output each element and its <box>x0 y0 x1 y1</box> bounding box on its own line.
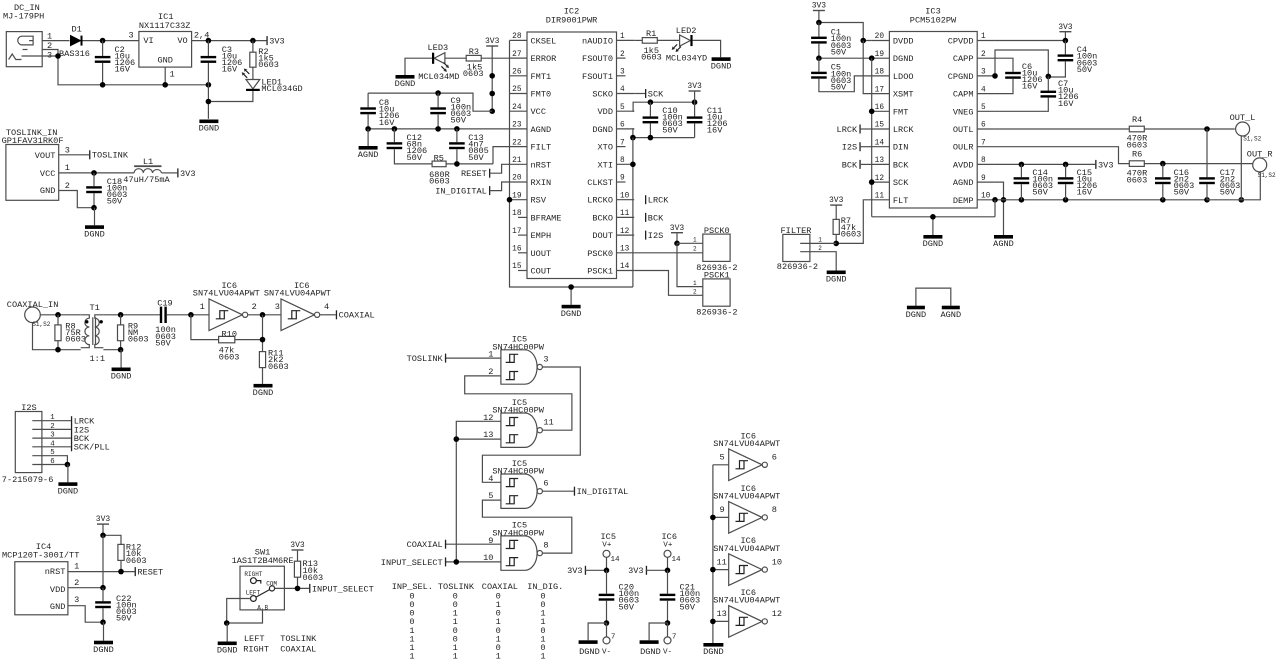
ground DGND (toslink) <box>94 208 96 226</box>
svg-text:2: 2 <box>818 245 822 252</box>
IC2 pin 12 DOUT <box>617 234 635 236</box>
svg-text:CAPP: CAPP <box>953 54 974 64</box>
IC2 pin 8 XTI <box>617 163 635 165</box>
supply 3V3 (IC2 left) <box>486 45 498 46</box>
svg-text:PSCK0: PSCK0 <box>704 226 730 236</box>
net BCK from BCKO pin 11 <box>645 213 646 222</box>
svg-text:SCK: SCK <box>648 89 664 99</box>
svg-text:R1: R1 <box>646 29 656 39</box>
svg-text:16: 16 <box>875 104 885 112</box>
svg-text:OULR: OULR <box>953 143 974 153</box>
svg-text:BAS316: BAS316 <box>59 49 90 59</box>
svg-text:2: 2 <box>50 423 54 431</box>
spare inverter input ground column <box>712 465 714 643</box>
capacitor C11 10u <box>694 102 696 116</box>
svg-text:GND: GND <box>157 55 172 65</box>
IC2 pin 20 RXIN <box>510 181 528 183</box>
wire LED3 anode to R3 <box>445 57 466 59</box>
svg-text:3: 3 <box>129 31 134 41</box>
IC3 pin 10 DEMP <box>977 199 995 201</box>
svg-text:R5: R5 <box>434 154 444 164</box>
svg-text:DGND: DGND <box>253 388 274 398</box>
svg-text:1AS1T2B4M6RE: 1AS1T2B4M6RE <box>232 556 294 566</box>
svg-text:0603: 0603 <box>841 230 862 240</box>
svg-text:VDD: VDD <box>598 107 613 117</box>
svg-text:13: 13 <box>620 246 630 254</box>
svg-text:VI: VI <box>143 36 153 46</box>
svg-text:16V: 16V <box>115 65 131 75</box>
connector OUT_R <box>1253 158 1267 172</box>
wire R4 to OUT_L <box>1144 128 1235 130</box>
LED LED2 MCL034YD <box>657 39 679 41</box>
IC2 pin 16 UOUT <box>518 252 527 254</box>
wire FILTER pin 1 <box>800 242 836 244</box>
ground DGND (spare inverters) <box>703 643 723 647</box>
wire LED1 cathode to ground <box>208 91 253 102</box>
junction FMT1 <box>489 73 495 79</box>
svg-text:4: 4 <box>324 302 329 312</box>
junction FMT0 <box>489 91 495 97</box>
junction node VIN <box>100 38 106 44</box>
IC5 V- pin 7 <box>606 623 608 637</box>
capacitor C9 <box>435 90 441 96</box>
supply 3V3 (SW1) <box>292 549 304 550</box>
svg-text:V-: V- <box>602 648 611 656</box>
svg-text:MCL034GD: MCL034GD <box>261 84 302 94</box>
svg-text:BCK: BCK <box>893 160 909 170</box>
svg-text:LRCKO: LRCKO <box>587 196 613 206</box>
svg-text:8: 8 <box>772 505 777 515</box>
svg-text:R3: R3 <box>469 47 479 57</box>
svg-text:2: 2 <box>981 51 986 59</box>
ground DGND (SW1) <box>226 623 228 642</box>
resistor R12 10k <box>118 544 124 560</box>
svg-text:DGND: DGND <box>906 310 927 320</box>
svg-text:DGND: DGND <box>217 646 238 656</box>
svg-text:R4: R4 <box>1132 115 1142 125</box>
svg-text:DGND: DGND <box>111 372 132 382</box>
capacitor C19 <box>160 307 162 323</box>
svg-text:3V3: 3V3 <box>485 37 500 46</box>
ground DGND (R11) <box>254 384 273 388</box>
svg-text:50V: 50V <box>451 116 467 126</box>
svg-text:14: 14 <box>611 556 621 564</box>
diode D1 BAS316 <box>71 36 81 46</box>
bottom rail out to C16/C17 <box>1207 172 1260 200</box>
svg-text:DGND: DGND <box>592 125 613 135</box>
wire PSCK0 pin 2 from PSCK0 pin 13 <box>634 252 712 254</box>
wire coax shield <box>33 323 81 350</box>
supply 3V3 tick (AVDD) <box>1095 160 1096 169</box>
capacitor C7 10u <box>1047 76 1049 90</box>
svg-text:SN74LVU04APWT: SN74LVU04APWT <box>713 492 780 502</box>
svg-text:10: 10 <box>981 193 991 201</box>
supply 3V3 (IC2 VDD) <box>689 90 701 91</box>
connector PSCK1 826936-2 <box>703 279 730 306</box>
ground DGND (tie) <box>907 306 925 310</box>
supply 3V3 (IC3 DVDD) <box>813 10 825 11</box>
capacitor C22 <box>102 588 104 602</box>
svg-text:16: 16 <box>512 246 522 254</box>
wire 3V3 to PSCK0 pin 1 <box>677 242 713 244</box>
supply 3V3 (R7) <box>830 204 842 205</box>
svg-text:INPUT_SELECT: INPUT_SELECT <box>312 584 374 594</box>
svg-text:50V: 50V <box>1174 188 1190 198</box>
svg-text:AGND: AGND <box>940 310 961 320</box>
IC3 pin 11 FLT <box>872 199 890 201</box>
svg-text:7: 7 <box>981 139 986 147</box>
wire T1 secondary bottom <box>103 349 120 351</box>
svg-text:BCK: BCK <box>648 213 664 223</box>
IC2 pin 6 DGND <box>617 128 635 130</box>
supply 3V3 tick (IC6) <box>646 566 647 575</box>
svg-text:9: 9 <box>620 175 625 183</box>
svg-text:27: 27 <box>512 51 522 59</box>
wire IC1 VO to 3V3 <box>192 40 267 42</box>
svg-text:0603: 0603 <box>268 362 289 372</box>
svg-text:3: 3 <box>543 355 548 365</box>
capacitor C12 68n <box>393 129 395 142</box>
svg-text:3V3: 3V3 <box>829 196 844 205</box>
svg-text:0603: 0603 <box>429 177 450 187</box>
IC3 pin 3 CPGND <box>977 75 995 77</box>
wire DEMP pin 10 rail <box>995 199 1207 201</box>
svg-text:50V: 50V <box>407 153 423 163</box>
wire FLT/DEMP ground link <box>872 216 995 218</box>
svg-text:VO: VO <box>177 36 187 46</box>
wire D1 to IC1 VI <box>83 40 139 42</box>
svg-text:RESET: RESET <box>137 568 163 578</box>
wire OULR pin 7 to R6 <box>995 147 1129 164</box>
net RESET (IC4) <box>135 567 136 576</box>
svg-text:14: 14 <box>875 139 885 147</box>
svg-text:DGND: DGND <box>84 230 105 240</box>
wire gate B out to gate A pin 2 <box>465 376 572 430</box>
svg-text:50V: 50V <box>1032 188 1048 198</box>
svg-text:826936-2: 826936-2 <box>777 262 818 272</box>
svg-text:50V: 50V <box>155 338 171 348</box>
IC3 pin 18 LDOO <box>872 75 890 77</box>
wire 3V3 to R12 <box>103 535 121 544</box>
resistor R3 1k5 <box>466 55 481 61</box>
svg-text:DGND: DGND <box>93 645 114 655</box>
svg-text:3: 3 <box>981 69 986 77</box>
svg-text:12: 12 <box>620 228 630 236</box>
connector DC_IN MJ-179PH <box>6 32 42 67</box>
svg-text:14: 14 <box>672 556 682 564</box>
wire AGND rail to pin 23 <box>368 128 509 130</box>
I2S pin 3 wire / net BCK <box>32 437 71 439</box>
svg-text:GND: GND <box>50 602 65 612</box>
svg-text:2: 2 <box>252 302 257 312</box>
svg-text:5: 5 <box>620 104 625 112</box>
wire GND pin2 <box>59 191 94 208</box>
svg-text:DGND: DGND <box>395 79 416 89</box>
svg-text:EMPH: EMPH <box>531 231 552 241</box>
svg-text:3V3: 3V3 <box>1058 23 1073 32</box>
svg-text:25: 25 <box>512 86 522 94</box>
svg-text:R10: R10 <box>222 329 237 339</box>
svg-text:3V3: 3V3 <box>628 566 643 576</box>
svg-text:S1,S2: S1,S2 <box>1243 136 1261 143</box>
svg-text:IC6: IC6 <box>662 532 677 542</box>
wire gate C pin 5 from gate D out <box>482 500 571 553</box>
wire 3V3 to DVDD pin 20 <box>819 23 872 41</box>
svg-text:8: 8 <box>981 157 986 165</box>
IC2 pin 17 EMPH <box>518 234 527 236</box>
svg-text:50V: 50V <box>662 126 678 136</box>
svg-text:nRST: nRST <box>45 567 66 577</box>
svg-text:0603: 0603 <box>126 556 147 566</box>
svg-text:1: 1 <box>200 302 205 312</box>
svg-text:0603: 0603 <box>128 335 149 345</box>
IC2 pin 10 LRCKO <box>617 199 635 201</box>
wire FLT pin 11 to filter select node <box>836 200 872 244</box>
svg-text:17: 17 <box>512 228 522 236</box>
wire C19 to IC6 gate A input <box>167 314 209 316</box>
svg-text:26: 26 <box>512 69 522 77</box>
svg-text:XTO: XTO <box>598 143 613 153</box>
resistor R4 470R <box>1129 126 1144 132</box>
connector PSCK0 826936-2 <box>703 234 730 261</box>
capacitor C21 100n <box>667 570 669 593</box>
svg-text:3: 3 <box>65 146 70 156</box>
svg-text:INPUT_SELECT: INPUT_SELECT <box>381 558 443 568</box>
svg-text:TOSLINK: TOSLINK <box>280 634 317 644</box>
svg-text:1: 1 <box>496 652 501 662</box>
svg-text:VCC: VCC <box>531 107 546 117</box>
svg-text:50V: 50V <box>1220 188 1236 198</box>
svg-text:nRST: nRST <box>531 160 552 170</box>
svg-text:1: 1 <box>818 237 822 244</box>
wire SW1 left to ground <box>227 599 251 624</box>
svg-text:RIGHT: RIGHT <box>243 645 269 655</box>
svg-text:SN74LVU04APWT: SN74LVU04APWT <box>713 544 780 554</box>
svg-text:DGND: DGND <box>826 275 847 285</box>
wire DGND pin 6 to cap rail and ground column <box>633 129 695 138</box>
svg-text:3: 3 <box>50 432 54 440</box>
svg-text:GND: GND <box>40 186 55 196</box>
svg-text:16V: 16V <box>1058 99 1074 109</box>
svg-text:MCL034MD: MCL034MD <box>418 72 459 82</box>
wire 3V3 column to VDD <box>102 535 104 587</box>
svg-text:IN_DIGITAL: IN_DIGITAL <box>435 187 487 197</box>
IC2 pin 3 FSOUT1 <box>617 75 626 77</box>
svg-text:R6: R6 <box>1132 150 1142 160</box>
svg-text:SCK: SCK <box>893 178 909 188</box>
svg-text:PCM5102PW: PCM5102PW <box>910 16 957 26</box>
wire OUTL pin 6 to R4 <box>995 128 1129 130</box>
ground AGND (IC3) <box>994 235 1013 239</box>
wire CAPP pin 2 to C6 <box>995 58 1013 72</box>
svg-text:DGND: DGND <box>711 62 732 72</box>
svg-text:SN74LVU04APWT: SN74LVU04APWT <box>713 439 780 449</box>
svg-text:50V: 50V <box>831 83 847 93</box>
svg-text:5: 5 <box>50 449 54 457</box>
svg-text:1: 1 <box>693 280 697 287</box>
svg-text:DGND: DGND <box>893 54 914 64</box>
wire VCC pin1 <box>59 172 134 174</box>
svg-text:18: 18 <box>512 210 522 218</box>
connector I2S 7-215079-6 <box>15 412 42 473</box>
IC3 pin 6 OUTL <box>977 128 995 130</box>
SW1 right contact <box>251 578 257 584</box>
svg-text:LRCK: LRCK <box>893 125 914 135</box>
svg-text:3: 3 <box>74 595 79 605</box>
svg-text:13: 13 <box>875 157 885 165</box>
svg-text:50V: 50V <box>1077 65 1093 75</box>
svg-text:1: 1 <box>65 163 70 173</box>
svg-text:12: 12 <box>772 609 782 619</box>
svg-text:1: 1 <box>409 652 414 662</box>
svg-text:AVDD: AVDD <box>953 160 974 170</box>
svg-text:FMT1: FMT1 <box>531 72 552 82</box>
svg-text:RSV: RSV <box>531 196 547 206</box>
IC4 MCP120T-300I/TT box <box>15 562 68 615</box>
svg-text:16V: 16V <box>1077 188 1093 198</box>
LED LED1 MCL034GD <box>246 80 260 89</box>
svg-text:RIGHT: RIGHT <box>244 571 262 578</box>
svg-text:I2S: I2S <box>648 231 663 241</box>
wire FILTER pin 2 to DGND <box>800 252 836 271</box>
svg-text:DGND: DGND <box>640 647 661 657</box>
IC2 pin 28 CKSEL <box>510 39 528 41</box>
ground DGND (FILTER) <box>827 271 846 275</box>
svg-text:50V: 50V <box>468 153 484 163</box>
IC2 pin 15 COUT <box>518 270 527 272</box>
capacitor C18 <box>93 173 95 186</box>
ground column down right side <box>632 138 634 287</box>
wire gate A out to gate C pin 4 <box>482 367 580 482</box>
SW1 left contact <box>251 596 257 602</box>
svg-text:V-: V- <box>663 648 672 656</box>
svg-text:3V3: 3V3 <box>180 169 195 179</box>
ground DGND (coax) <box>120 350 122 368</box>
wire DEMP to FLT ground link <box>994 200 996 217</box>
resistor R7 47k <box>833 219 839 234</box>
svg-text:0603: 0603 <box>219 353 240 363</box>
svg-text:ERROR: ERROR <box>531 54 557 64</box>
svg-text:BFRAME: BFRAME <box>531 213 562 223</box>
capacitor C15 10u <box>1065 164 1067 177</box>
svg-text:4: 4 <box>50 440 55 448</box>
junction XTI pin 8 grounded <box>630 162 636 168</box>
svg-text:LRCK: LRCK <box>837 125 858 135</box>
svg-text:VDD: VDD <box>50 585 65 595</box>
wire inverter A out <box>248 314 281 316</box>
svg-text:6: 6 <box>981 122 986 130</box>
svg-text:CPGND: CPGND <box>948 72 974 82</box>
ground DGND (IC4) <box>103 622 105 641</box>
wire CKSEL column to RSV and ground <box>510 40 633 287</box>
capacitor C13 4n7 <box>456 129 458 142</box>
svg-text:0603: 0603 <box>641 53 662 63</box>
IC3 pin 7 OULR <box>977 146 995 148</box>
svg-text:50V: 50V <box>831 47 847 57</box>
svg-text:1: 1 <box>620 33 625 41</box>
svg-text:BCKO: BCKO <box>592 213 613 223</box>
svg-text:0603: 0603 <box>258 60 279 70</box>
wire inverter A out down to R11 <box>262 315 264 352</box>
IC IC2 DIR9001PWR box <box>527 32 617 279</box>
IC2 pin 24 VCC <box>510 110 528 112</box>
resistor R6 470R <box>1129 161 1144 167</box>
svg-text:15: 15 <box>512 263 522 271</box>
junction VCC <box>489 108 495 114</box>
svg-text:3V3: 3V3 <box>290 541 305 550</box>
net I2S to IC3 DIN pin 14 <box>859 142 860 151</box>
wire INPUT_SELECT column to gate B pins 12,13 <box>456 421 501 562</box>
svg-text:3V3: 3V3 <box>567 566 582 576</box>
svg-text:1: 1 <box>693 237 697 244</box>
svg-text:12: 12 <box>875 175 885 183</box>
resistor R9 NM <box>120 315 122 325</box>
svg-text:3V3: 3V3 <box>670 224 685 233</box>
svg-text:V+: V+ <box>602 542 612 550</box>
svg-text:SCKO: SCKO <box>592 90 613 100</box>
svg-text:DEMP: DEMP <box>953 196 974 206</box>
wire VDD pin2 <box>68 587 103 589</box>
svg-text:2: 2 <box>693 289 697 296</box>
svg-text:5: 5 <box>720 453 725 463</box>
wire AVDD pin 8 rail <box>995 163 1095 165</box>
svg-text:LEFT: LEFT <box>244 634 265 644</box>
resistor R2 <box>250 38 256 44</box>
IC2 pin 2 FSOUT0 <box>617 57 626 59</box>
net TOSLINK to gate A pin 1 <box>445 357 501 359</box>
connector TOSLINK_IN GP1FAV31RK0F <box>6 145 59 201</box>
svg-text:LED2: LED2 <box>676 26 697 36</box>
capacitor C14 100n <box>1020 164 1022 177</box>
svg-text:50V: 50V <box>107 197 123 207</box>
wire CPGND pin 3 bridge <box>995 50 1048 76</box>
IC3 pin 2 CAPP <box>977 57 995 59</box>
svg-text:17: 17 <box>875 86 885 94</box>
connector COAXIAL_IN <box>25 307 41 323</box>
SW1 actuator <box>256 590 269 597</box>
svg-text:7: 7 <box>620 139 625 147</box>
net COAXIAL to gate D pin 9 <box>445 543 501 545</box>
svg-text:2: 2 <box>620 51 625 59</box>
svg-text:10: 10 <box>620 192 630 200</box>
wire SW1 COM to INPUT_SELECT <box>275 587 310 589</box>
ground DGND (IC3 bottom) <box>932 217 934 235</box>
svg-text:21: 21 <box>512 157 522 165</box>
svg-text:FSOUT0: FSOUT0 <box>582 54 613 64</box>
svg-text:SCK/PLL: SCK/PLL <box>74 443 110 453</box>
IC2 pin 4 SCKO <box>617 93 635 95</box>
capacitor C3 <box>206 38 212 44</box>
svg-text:4: 4 <box>981 86 986 94</box>
svg-text:DGND: DGND <box>579 647 600 657</box>
supply 3V3 tick (toslink) <box>177 168 178 177</box>
svg-text:1: 1 <box>74 562 79 572</box>
svg-text:16V: 16V <box>379 118 395 128</box>
svg-text:NX1117C33Z: NX1117C33Z <box>139 21 191 31</box>
svg-text:8: 8 <box>620 157 625 165</box>
svg-text:0603: 0603 <box>463 69 484 79</box>
svg-text:L1: L1 <box>143 157 153 167</box>
svg-text:11: 11 <box>717 557 727 567</box>
wire VCC rail to C8/C9 <box>368 93 492 111</box>
svg-text:PSCK1: PSCK1 <box>587 267 613 277</box>
svg-text:FSOUT1: FSOUT1 <box>582 72 613 82</box>
wire inverter B out to COAXIAL net <box>320 314 336 316</box>
svg-text:14: 14 <box>620 263 630 271</box>
resistor R1 1k5 <box>634 39 642 41</box>
connector FILTER 826936-2 <box>783 234 810 261</box>
supply 3V3 (IC4) <box>97 523 109 524</box>
